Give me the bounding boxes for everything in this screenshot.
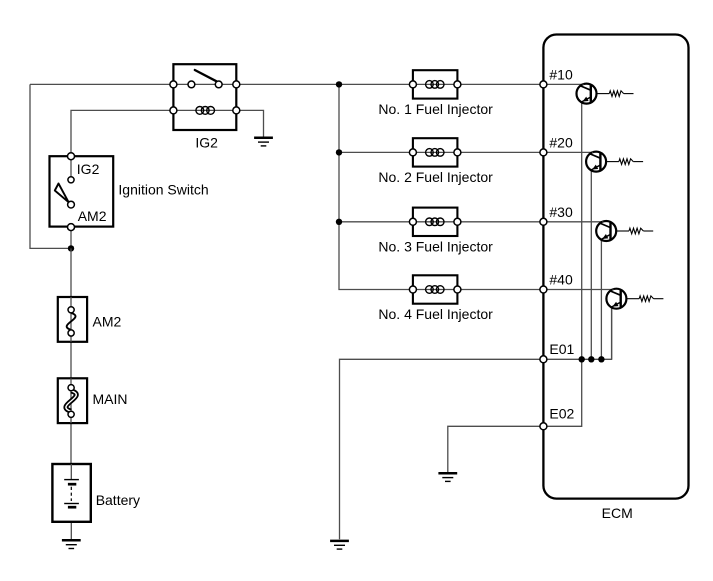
relay IG2 terminal switch-out (233, 81, 240, 88)
transistor Q2 body (586, 152, 606, 172)
svg-text:E02: E02 (549, 405, 574, 421)
svg-text:AM2: AM2 (78, 208, 107, 224)
wire E01 to ground (left) (340, 359, 544, 539)
wire ignition switch AM2 to battery junction (70, 227, 72, 248)
label ECM (602, 505, 633, 521)
wire resistor R2 tail (633, 161, 643, 163)
wire resistor R3 tail (643, 230, 653, 232)
svg-text:IG2: IG2 (195, 135, 218, 151)
transistor Q4 emitter (612, 302, 621, 307)
injector No.3 terminal left (409, 218, 416, 225)
relay IG2 terminal coil-in (170, 107, 177, 114)
injector No.2 terminal right (454, 149, 461, 156)
transistor Q4 base bar (620, 290, 622, 308)
injector No.4 terminal left (409, 286, 416, 293)
wire ECM #40 terminal to transistor Q4 collector (543, 289, 612, 291)
junction E01 at Q1 emitter / E02 link (579, 356, 585, 362)
injector No.4 box (413, 275, 458, 303)
wire E02 to E01 link (543, 359, 581, 426)
injector No.1 terminal left (409, 81, 416, 88)
wire relay switch internal (173, 83, 236, 85)
label AM2 contact (78, 208, 107, 224)
wire ECM #30 terminal to transistor Q3 collector (543, 221, 602, 223)
svg-text:ECM: ECM (602, 505, 633, 521)
relay IG2 terminal coil-out (233, 107, 240, 114)
wire top feed: battery branch to IG2 relay switch (30, 83, 173, 85)
battery cell plates (64, 464, 79, 507)
injector No.3 internal wire (413, 221, 458, 223)
wire transistor Q3 base to resistor (616, 230, 629, 232)
battery box (52, 464, 90, 522)
ignition switch terminal top (68, 153, 75, 160)
transistor Q2 emitter arrow (592, 165, 598, 170)
terminal E01 of ECM (540, 356, 547, 363)
fusible link MAIN element (66, 385, 76, 418)
transistor Q4 body (606, 289, 626, 309)
label Ignition Switch (118, 182, 208, 198)
injector No.4 internal wire (413, 289, 458, 291)
fusible link MAIN box (58, 378, 87, 423)
wire ECM #10 terminal to transistor Q1 collector (543, 83, 582, 85)
junction battery feed node (68, 245, 74, 251)
ground battery (62, 540, 81, 548)
terminal #20 of ECM (540, 149, 547, 156)
terminal #10 of ECM (540, 81, 547, 88)
wire bus branch to No.3 injector (339, 221, 413, 223)
label AM2 fuse (93, 313, 122, 329)
transistor Q4 emitter arrow (612, 302, 618, 307)
transistor Q4 collector (610, 291, 621, 296)
junction E01 at Q2 emitter (588, 356, 594, 362)
junction bus at No.3 branch (336, 219, 342, 225)
wire relay switch output to ECM #10 through No.1 injector (236, 83, 543, 85)
wire transistor Q3 emitter to E01 (600, 239, 602, 359)
transistor Q2 base bar (599, 153, 601, 171)
wire No.2 injector to ECM #20 (457, 151, 543, 153)
svg-text:IG2: IG2 (77, 161, 100, 177)
injector No.2 internal wire (413, 151, 458, 153)
transistor Q3 emitter arrow (602, 234, 608, 239)
terminal #40 of ECM (540, 286, 547, 293)
injector No.3 terminal right (454, 218, 461, 225)
wire resistor R1 tail (624, 93, 634, 95)
wire transistor Q4 base to resistor (626, 298, 639, 300)
pin label #30 (549, 204, 573, 220)
wire transistor Q1 emitter to E01 (581, 102, 583, 360)
svg-text:No. 1 Fuel Injector: No. 1 Fuel Injector (378, 101, 493, 117)
wire ECM #20 terminal to transistor Q2 collector (543, 151, 592, 153)
injector No.4 terminal right (454, 286, 461, 293)
wire battery feed: left vertical from top wire down to AM2 junction (30, 84, 71, 248)
wire transistor Q4 emitter to E01 (611, 307, 613, 359)
wire battery to ground (70, 507, 72, 540)
pin label #10 (549, 66, 573, 82)
ground E01 (330, 541, 349, 549)
ignition switch terminal bottom (68, 224, 75, 231)
svg-text:AM2: AM2 (93, 313, 122, 329)
wire MAIN fuse to battery (70, 423, 72, 464)
label No. 2 Fuel Injector (378, 169, 493, 185)
wire transistor Q2 base to resistor (606, 161, 619, 163)
injector No.4 coil (426, 286, 444, 294)
transistor Q3 base bar (609, 222, 611, 240)
relay IG2 coil (196, 107, 215, 115)
wire relay coil internal (173, 109, 236, 111)
injector No.2 box (413, 138, 458, 166)
svg-text:#20: #20 (549, 134, 573, 150)
ground E02 (438, 473, 457, 481)
wire injector supply bus vertical (339, 84, 413, 289)
transistor Q3 emitter (601, 234, 610, 239)
label No. 1 Fuel Injector (378, 101, 493, 117)
injector No.1 box (413, 70, 458, 98)
label No. 4 Fuel Injector (378, 306, 493, 322)
relay IG2 switch arm (195, 70, 217, 81)
svg-text:Ignition Switch: Ignition Switch (118, 182, 208, 198)
wire ignition switch IG2 terminal to relay coil (71, 110, 173, 156)
ignition switch blade (55, 184, 69, 203)
label IG2 contact (77, 161, 100, 177)
transistor Q3 body (596, 221, 616, 241)
ignition switch wire IG2 contact to terminal (70, 156, 72, 180)
wire relay coil to ground (236, 110, 263, 137)
svg-text:Battery: Battery (96, 492, 140, 508)
resistor R4 base (639, 296, 653, 302)
wire No.4 injector to ECM #40 (457, 289, 543, 291)
resistor R1 base (609, 91, 623, 97)
pin label #20 (549, 134, 573, 150)
wire resistor R4 tail (654, 298, 664, 300)
fusible link MAIN internal wire (70, 378, 72, 423)
label No. 3 Fuel Injector (378, 239, 493, 255)
wire AM2 fuse to MAIN fuse (70, 342, 72, 379)
label Battery (96, 492, 140, 508)
wire E01 emitter bus (right) (543, 307, 611, 360)
relay IG2 box (173, 64, 236, 130)
ECM box (543, 35, 688, 499)
ignition switch contact AM2 (68, 201, 75, 208)
injector No.2 terminal left (409, 149, 416, 156)
label MAIN fuse (93, 391, 128, 407)
label IG2 relay (195, 135, 218, 151)
junction bus at No.1 branch (336, 81, 342, 87)
svg-text:No. 4 Fuel Injector: No. 4 Fuel Injector (378, 306, 493, 322)
svg-text:#40: #40 (549, 272, 573, 288)
wire junction to AM2 fuse (70, 248, 72, 297)
transistor Q1 base bar (590, 85, 592, 103)
transistor Q2 emitter (591, 165, 600, 170)
injector No.1 coil (426, 81, 444, 89)
svg-text:E01: E01 (549, 341, 574, 357)
transistor Q1 collector (580, 86, 591, 91)
resistor R3 base (629, 228, 643, 234)
relay IG2 switch contact left (188, 81, 195, 88)
injector No.1 internal wire (413, 83, 458, 85)
injector No.1 terminal right (454, 81, 461, 88)
injector No.3 box (413, 208, 458, 236)
ignition switch box (50, 156, 114, 226)
wire No.3 injector to ECM #30 (457, 221, 543, 223)
injector No.2 coil (426, 149, 444, 157)
terminal E02 of ECM (540, 423, 547, 430)
relay IG2 switch contact right (215, 81, 222, 88)
wire transistor Q1 base to resistor (597, 93, 610, 95)
resistor R2 base (619, 159, 633, 165)
transistor Q2 collector (589, 154, 600, 159)
svg-text:MAIN: MAIN (93, 391, 128, 407)
fuse AM2 element (67, 307, 76, 336)
svg-text:No. 2 Fuel Injector: No. 2 Fuel Injector (378, 169, 493, 185)
wire bus branch to No.2 injector (339, 151, 413, 153)
junction bus at No.2 branch (336, 149, 342, 155)
svg-text:No. 3 Fuel Injector: No. 3 Fuel Injector (378, 239, 493, 255)
junction E01 at Q3 emitter (598, 356, 604, 362)
wire E02 to ground (left) (448, 426, 544, 472)
transistor Q1 emitter arrow (583, 97, 589, 102)
fuse AM2 box (58, 297, 87, 342)
pin label #40 (549, 272, 573, 288)
pin label E01 (549, 341, 574, 357)
terminal #30 of ECM (540, 218, 547, 225)
wire transistor Q2 emitter to E01 (590, 170, 592, 359)
ignition switch contact IG2 (68, 177, 74, 183)
relay IG2 terminal switch-in (170, 81, 177, 88)
transistor Q1 emitter (582, 97, 591, 102)
transistor Q1 body (577, 84, 597, 104)
pin label E02 (549, 405, 574, 421)
svg-text:#10: #10 (549, 66, 573, 82)
fuse AM2 internal wire (70, 297, 72, 342)
transistor Q3 collector (599, 223, 610, 228)
ground relay coil (254, 138, 273, 146)
svg-text:#30: #30 (549, 204, 573, 220)
injector No.3 coil (426, 218, 444, 226)
